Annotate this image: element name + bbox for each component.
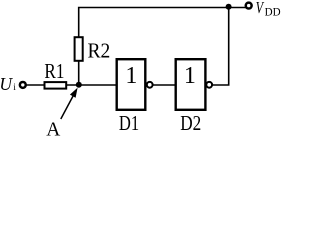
- svg-text:DD: DD: [265, 6, 281, 18]
- svg-text:1: 1: [184, 63, 196, 89]
- svg-text:1: 1: [125, 63, 137, 89]
- svg-text:R1: R1: [44, 61, 64, 84]
- svg-text:D1: D1: [119, 112, 139, 136]
- svg-text:A: A: [46, 118, 61, 136]
- svg-text:U: U: [0, 74, 13, 94]
- svg-text:D2: D2: [180, 112, 201, 135]
- svg-text:R2: R2: [88, 40, 111, 63]
